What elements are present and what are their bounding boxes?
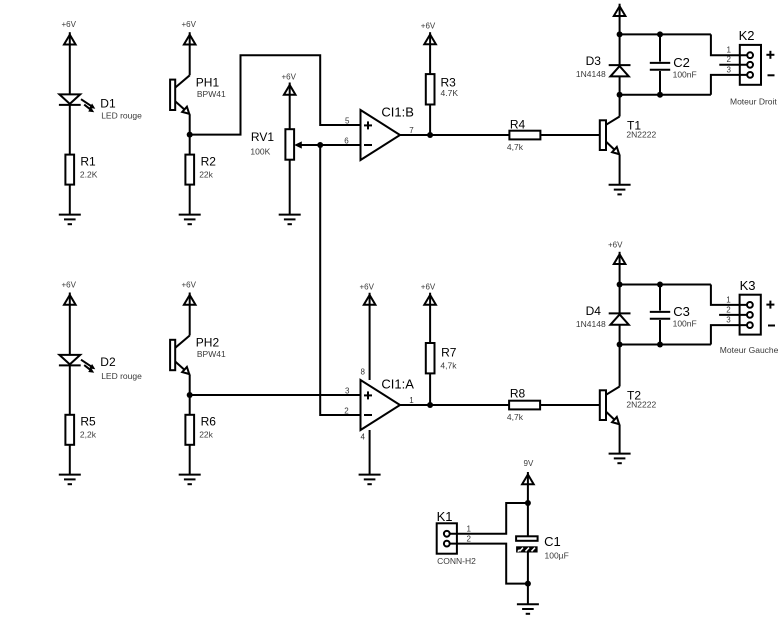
node top rail / C3 (657, 282, 663, 288)
svg-text:PH2: PH2 (196, 336, 220, 350)
ground (R6) (179, 475, 201, 485)
wire K3 pin 2 stub (719, 314, 747, 316)
transistor T1 2N2222 (600, 95, 657, 185)
resistor R7 4,7k (426, 343, 457, 373)
svg-text:4,7k: 4,7k (507, 412, 524, 422)
svg-text:6: 6 (344, 137, 349, 146)
wire to K3 pin 1 (711, 285, 747, 305)
svg-text:4.7K: 4.7K (441, 88, 459, 98)
capacitor C3 100nF (650, 285, 697, 345)
svg-text:1N4148: 1N4148 (576, 69, 606, 79)
svg-text:RV1: RV1 (251, 130, 274, 144)
resistor R5 2,2k (65, 415, 96, 445)
svg-text:+6V: +6V (360, 283, 375, 292)
svg-text:D3: D3 (586, 54, 602, 68)
svg-text:1: 1 (409, 396, 414, 405)
power 9V arrow (battery input) (522, 459, 534, 536)
LED D1 (59, 94, 142, 120)
wire R4 to T1 base (540, 134, 599, 136)
svg-text:K2: K2 (739, 28, 755, 43)
svg-text:3: 3 (727, 65, 732, 74)
svg-text:CI1:B: CI1:B (381, 105, 414, 120)
wire wiper to op-amp pin 6 (320, 144, 360, 146)
wire D2 to R5 (69, 365, 71, 414)
svg-text:K3: K3 (740, 278, 756, 293)
svg-text:2,2k: 2,2k (80, 430, 97, 440)
svg-text:CI1:A: CI1:A (381, 377, 414, 392)
svg-text:K1: K1 (437, 509, 453, 524)
svg-text:3: 3 (726, 316, 731, 325)
svg-text:BPW41: BPW41 (197, 349, 226, 359)
svg-text:1N4148: 1N4148 (576, 319, 606, 329)
svg-text:5: 5 (345, 117, 350, 126)
wire R3 to output node (429, 105, 431, 136)
wire RV1 to ground (289, 160, 291, 215)
LED D2 (59, 355, 142, 381)
svg-text:2N2222: 2N2222 (626, 130, 656, 140)
power +6V arrow (D2 branch) (62, 281, 77, 355)
resistor R4 4,7k (507, 117, 541, 152)
svg-text:C3: C3 (673, 304, 690, 319)
svg-text:+6V: +6V (421, 283, 436, 292)
node top rail / C2 (657, 31, 663, 37)
power +6V arrow (CI1:A pin 8) (360, 283, 376, 381)
svg-text:2.2K: 2.2K (80, 170, 98, 180)
wire PH2 junction to op-amp pin 3 (190, 394, 361, 396)
svg-text:Moteur Droit: Moteur Droit (730, 97, 777, 107)
ground (T1 emitter) (609, 185, 631, 195)
node output/R3 junction (427, 132, 433, 138)
svg-text:+6V: +6V (62, 281, 77, 290)
svg-text:2: 2 (726, 305, 731, 314)
svg-text:2: 2 (467, 534, 472, 543)
svg-text:2: 2 (727, 55, 732, 64)
svg-text:PH1: PH1 (196, 76, 220, 90)
op-amp CI1:B (344, 105, 414, 160)
svg-text:1: 1 (726, 295, 731, 304)
node RV1 wiper junction (317, 142, 323, 148)
diode D3 1N4148 (576, 34, 631, 94)
power +6V arrow (T2 collector net) (608, 241, 625, 285)
resistor R3 4.7K (426, 74, 459, 104)
svg-text:R6: R6 (201, 415, 217, 429)
power +6V arrow (T1 collector net, top edge) (614, 4, 626, 35)
transistor T2 2N2222 (600, 345, 657, 454)
svg-text:100nF: 100nF (673, 70, 697, 80)
ground (R5) (59, 475, 81, 485)
svg-text:22k: 22k (199, 430, 213, 440)
svg-text:C1: C1 (544, 534, 561, 549)
svg-text:2N2222: 2N2222 (626, 400, 656, 410)
wire PH2 emitter to R6 (189, 375, 191, 415)
svg-text:+6V: +6V (608, 241, 623, 250)
svg-text:LED rouge: LED rouge (101, 111, 142, 121)
ground (C1) (517, 604, 539, 614)
wire CI1:A output to R8 (400, 404, 509, 406)
svg-text:+6V: +6V (182, 20, 197, 29)
resistor R2 22k (185, 155, 216, 185)
wire D1 to R1 (69, 105, 71, 155)
svg-text:7: 7 (409, 126, 414, 135)
svg-text:R4: R4 (510, 117, 526, 131)
power +6V arrow (R7) (421, 283, 436, 344)
wire R6 to ground (189, 445, 191, 474)
connector K2 Moteur Droit (727, 28, 778, 106)
potentiometer RV1 100K (250, 129, 320, 160)
node bottom rail / C3 (657, 342, 663, 348)
resistor R1 2.2K (65, 155, 97, 185)
wire CI1:B output to R4 (400, 134, 509, 136)
wire to K3 pin 3 (711, 325, 747, 344)
wire K1 pin 1 to 9V node (450, 503, 528, 534)
power +6V arrow (R3) (421, 21, 436, 74)
svg-text:+6V: +6V (421, 21, 436, 30)
capacitor C1 100uF (516, 534, 569, 561)
svg-text:4,7k: 4,7k (507, 142, 524, 152)
power +6V arrow (PH1 branch) (182, 20, 197, 75)
svg-text:22k: 22k (199, 170, 213, 180)
node top rail / D4 (617, 282, 623, 288)
power +6V arrow (RV1) (282, 72, 297, 129)
svg-text:100µF: 100µF (545, 551, 569, 561)
wire to K2 pin 3 (711, 75, 747, 95)
svg-text:CONN-H2: CONN-H2 (437, 556, 476, 566)
node bottom rail / D4 (617, 342, 623, 348)
wire R1 to ground (69, 185, 71, 215)
node bottom rail / D3 (617, 92, 623, 98)
svg-text:R7: R7 (441, 346, 457, 360)
svg-text:BPW41: BPW41 (197, 89, 226, 99)
ground (R2) (179, 215, 201, 225)
capacitor C2 100nF (650, 34, 697, 94)
svg-text:C2: C2 (673, 55, 690, 70)
svg-text:R1: R1 (80, 155, 96, 169)
wire wiper junction down to CI1:A pin 2 (320, 145, 360, 415)
wire K1 pin 2 to ground node (450, 544, 528, 584)
svg-text:4,7k: 4,7k (440, 361, 457, 371)
ground (R1) (59, 215, 81, 225)
ground (CI1:A pin 4) (359, 475, 381, 485)
wire PH1 emitter to R2 (189, 114, 191, 154)
diode D4 1N4148 (576, 285, 631, 345)
resistor R6 22k (185, 415, 216, 445)
svg-text:1: 1 (727, 46, 732, 55)
node bottom rail / C2 (657, 92, 663, 98)
svg-text:3: 3 (345, 387, 350, 396)
svg-text:1: 1 (467, 525, 472, 534)
node top rail / D3 (617, 31, 623, 37)
phototransistor PH1 BPW41 (170, 75, 226, 114)
wire R7 to output node (429, 373, 431, 405)
phototransistor PH2 BPW41 (170, 336, 226, 375)
power +6V arrow (PH2 branch) (182, 281, 197, 336)
wire PH1 junction to op-amp pin 5 (190, 55, 361, 134)
wire R2 to ground (189, 185, 191, 215)
node PH1/R2 junction (187, 132, 193, 138)
wire top rail (channel 1) (620, 33, 711, 35)
ground (T2 emitter) (609, 454, 631, 464)
svg-text:LED rouge: LED rouge (101, 371, 142, 381)
svg-text:4: 4 (361, 433, 366, 442)
node output/R7 junction (427, 402, 433, 408)
svg-text:9V: 9V (524, 459, 534, 468)
svg-text:100nF: 100nF (673, 319, 697, 329)
svg-text:R8: R8 (510, 387, 526, 401)
svg-text:+6V: +6V (62, 20, 77, 29)
svg-text:D2: D2 (100, 355, 116, 369)
node PH2/R6 junction (187, 392, 193, 398)
node C1 bottom / K1 pin2 junction (525, 581, 531, 587)
wire R8 to T2 base (540, 404, 600, 406)
wire R5 to ground (69, 445, 71, 474)
svg-text:100K: 100K (250, 146, 270, 156)
svg-text:+6V: +6V (282, 72, 297, 81)
svg-text:Moteur Gauche: Moteur Gauche (720, 345, 779, 355)
resistor R8 4,7k (507, 387, 540, 422)
svg-text:2: 2 (344, 407, 349, 416)
wire K2 pin 2 stub (719, 64, 747, 66)
wire C1 to ground (527, 553, 529, 604)
power +6V arrow (D1 branch) (62, 20, 77, 94)
svg-text:R2: R2 (201, 155, 217, 169)
ground (RV1) (279, 215, 301, 225)
svg-text:D4: D4 (586, 304, 602, 318)
wire to K2 pin 1 (711, 34, 747, 55)
svg-text:R5: R5 (80, 415, 96, 429)
node 9V / C1 / K1 pin1 junction (525, 500, 531, 506)
svg-text:D1: D1 (100, 97, 116, 111)
wire CI1:A pin 4 to ground (361, 430, 370, 474)
connector K1 CONN-H2 (437, 509, 476, 566)
wire top rail (channel 2) (620, 284, 711, 286)
op-amp CI1:A (344, 377, 414, 431)
wire bottom rail (channel 1) (620, 94, 711, 96)
svg-text:8: 8 (361, 368, 366, 377)
svg-text:+6V: +6V (182, 281, 197, 290)
connector K3 Moteur Gauche (720, 278, 779, 355)
wire bottom rail (channel 2) (620, 344, 711, 346)
